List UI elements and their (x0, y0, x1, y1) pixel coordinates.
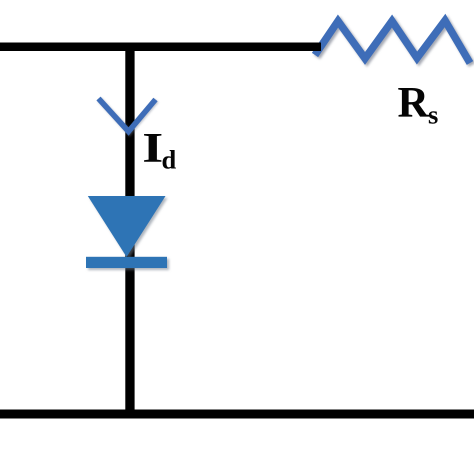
wire: bottom horizontal (0, 410, 474, 419)
svg-text:R: R (398, 78, 430, 126)
svg-text:d: d (162, 145, 177, 175)
svg-text:s: s (428, 99, 438, 129)
svg-text:I: I (142, 125, 163, 172)
wire: vertical branch (diode branch) (125, 43, 134, 419)
diode D (anode triangle + cathode bar) (86, 196, 167, 268)
wire: top horizontal (left node to resistor) (0, 43, 321, 52)
resistor Rs (zigzag) (315, 21, 470, 64)
current arrow Id (blue V arrowhead) (99, 99, 156, 132)
